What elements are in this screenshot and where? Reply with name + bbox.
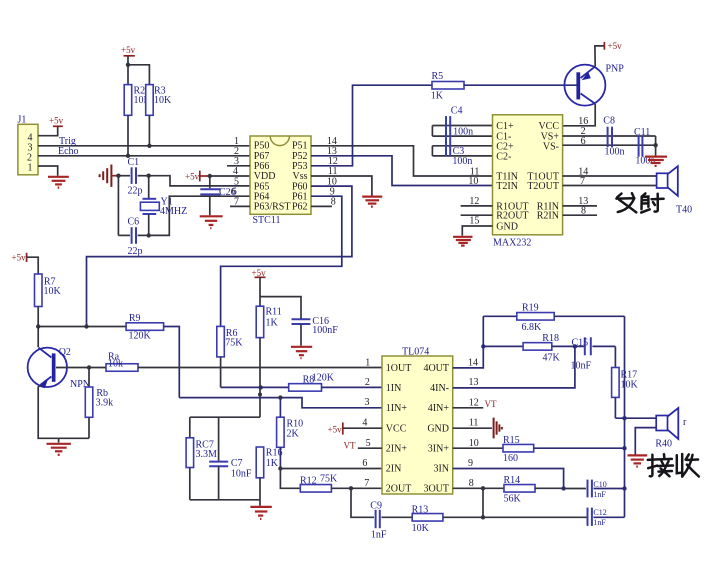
svg-text:10: 10 <box>469 438 479 449</box>
wire VS- row through C8 C11 <box>563 144 656 146</box>
svg-text:C4: C4 <box>451 106 463 117</box>
ground (C11 right) <box>645 157 667 166</box>
pin numbers TL074 left <box>362 357 370 489</box>
resistor RC7 3.3M <box>186 417 217 500</box>
wire P51 pin14 to T1IN <box>311 146 493 176</box>
capacitor C7 10nF <box>209 417 252 500</box>
wire speaker lower to ground <box>635 428 656 455</box>
svg-text:T2IN: T2IN <box>496 181 518 192</box>
svg-text:1: 1 <box>28 163 33 174</box>
svg-text:R19: R19 <box>522 303 539 314</box>
svg-text:+5v: +5v <box>252 268 267 278</box>
wire R8 row (R6 to 1IN-) <box>221 386 289 388</box>
node junction C1 left <box>116 174 120 178</box>
resistor Rb 3.9k <box>85 368 113 439</box>
svg-text:10k: 10k <box>108 359 123 370</box>
svg-text:+5v: +5v <box>49 116 64 126</box>
svg-text:5: 5 <box>366 438 371 449</box>
node C10 output junction <box>622 486 626 490</box>
wire C6 left drop <box>117 176 119 236</box>
ground (under J1) <box>48 177 69 188</box>
svg-text:3.9k: 3.9k <box>96 398 114 409</box>
resistor R9 120K <box>126 313 164 342</box>
wire R8 to TL074 1IN- <box>322 386 383 388</box>
svg-text:12: 12 <box>469 397 479 408</box>
svg-text:75K: 75K <box>225 338 243 349</box>
svg-text:75K: 75K <box>320 474 338 485</box>
svg-text:J1: J1 <box>18 115 27 126</box>
svg-text:15: 15 <box>469 215 479 226</box>
svg-text:2: 2 <box>365 377 370 388</box>
svg-text:R14: R14 <box>504 475 521 486</box>
node R3-Trig junction <box>147 144 151 148</box>
ground (under C26) <box>200 216 223 228</box>
wire P61 pin9 to R6 <box>221 196 342 326</box>
svg-text:1nF: 1nF <box>593 518 606 527</box>
svg-text:14: 14 <box>468 357 478 368</box>
power +5v (R7 top) <box>12 252 27 262</box>
ground (MAX232 GND) <box>453 237 472 246</box>
svg-text:100n: 100n <box>605 147 625 158</box>
capacitor C6 22p <box>118 217 148 258</box>
svg-text:3IN: 3IN <box>433 464 449 475</box>
wire R11 bottom long vertical <box>259 338 261 418</box>
svg-text:R16: R16 <box>266 448 283 459</box>
node 2IN row junction <box>278 466 282 470</box>
svg-text:R2OUT: R2OUT <box>496 211 528 222</box>
node R13 junction <box>481 515 485 519</box>
svg-text:+5v: +5v <box>12 252 27 262</box>
svg-text:3OUT: 3OUT <box>423 484 449 495</box>
svg-text:10K: 10K <box>412 523 430 534</box>
resistor R3 <box>146 85 172 116</box>
wire base row to TL074 1OUT <box>138 367 382 369</box>
wire VDD row <box>210 175 250 177</box>
wire R7 bottom to Q2 collector <box>37 307 39 348</box>
capacitor C16 100nF <box>292 316 339 346</box>
resistor R17 10K <box>612 346 639 418</box>
capacitor C3 100n <box>432 138 492 167</box>
wire +5v down to R11 and C16 <box>259 277 261 306</box>
wire 4IN- pin13 to C15 node <box>453 346 575 388</box>
wire R17 to speaker upper <box>615 417 656 419</box>
crystal Y1 4MHZ <box>140 176 187 236</box>
wire VS+ row through C8 <box>563 135 656 137</box>
svg-text:R40: R40 <box>655 439 672 450</box>
capacitor C26 <box>200 176 235 215</box>
svg-text:Q2: Q2 <box>59 347 71 358</box>
IC U1 STC11 microcontroller <box>250 136 311 226</box>
capacitor C1 22p <box>118 157 148 197</box>
resistor R15 160 <box>503 435 534 464</box>
svg-text:R11: R11 <box>266 307 282 318</box>
svg-text:+5v: +5v <box>608 41 623 51</box>
wire T2OUT to speaker <box>563 185 657 187</box>
wire crystal top node to P65 row <box>149 176 250 186</box>
wire 4OUT pin14 to feedback node <box>453 316 484 368</box>
resistor R5 1K <box>431 71 464 102</box>
svg-text:100n: 100n <box>453 127 473 138</box>
svg-text:9: 9 <box>468 458 473 469</box>
wire Echo row (J1 pin2 to STC11 P67) <box>38 155 250 157</box>
wire R9 right down to 1IN+ path <box>164 327 180 398</box>
svg-text:4OUT: 4OUT <box>423 363 449 374</box>
svg-text:8: 8 <box>469 478 474 489</box>
svg-text:VCC: VCC <box>538 121 559 132</box>
resistor R19 6.8K <box>483 303 624 333</box>
svg-text:R5: R5 <box>432 71 444 82</box>
svg-text:T2OUT: T2OUT <box>527 181 559 192</box>
node P60 junction <box>84 324 88 328</box>
svg-text:4IN+: 4IN+ <box>428 403 450 414</box>
svg-text:3: 3 <box>365 397 370 408</box>
wire P63/RST stub <box>230 205 250 207</box>
svg-text:4IN-: 4IN- <box>430 383 449 394</box>
svg-text:PNP: PNP <box>606 64 625 75</box>
ground (under R16) <box>250 500 271 519</box>
wire R3 bottom to Trig <box>148 115 150 146</box>
svg-text:R18: R18 <box>542 333 559 344</box>
node R11/R8 junction <box>259 385 263 389</box>
node R2-Echo junction <box>126 154 130 158</box>
svg-text:4: 4 <box>362 418 367 429</box>
svg-text:10nF: 10nF <box>571 361 592 372</box>
wire VS jog down to ground <box>655 136 657 156</box>
node R10 top junction <box>278 395 282 399</box>
svg-text:1K: 1K <box>266 318 279 329</box>
speaker T40 (transmit transducer) <box>657 166 693 215</box>
wire R9 path to 1IN+ <box>179 398 382 408</box>
svg-text:R9: R9 <box>129 313 141 324</box>
wire output long vertical <box>624 316 626 517</box>
svg-text:C2-: C2- <box>496 151 511 162</box>
svg-text:VS-: VS- <box>543 141 559 152</box>
svg-text:13: 13 <box>469 377 479 388</box>
power +5v (VDD) <box>185 171 210 182</box>
transistor Q2 NPN <box>28 347 90 390</box>
node R14/C10 junction <box>561 486 565 490</box>
svg-text:R2IN: R2IN <box>537 211 559 222</box>
node junction R2R3 +5v <box>126 63 130 67</box>
connector J1 <box>18 115 39 175</box>
svg-text:10K: 10K <box>44 286 62 297</box>
text receive label (jie shou drawn strokes) <box>648 454 699 477</box>
wire Q2 base row to Ra <box>56 367 106 369</box>
node junction C6 right / crystal bottom <box>147 233 151 237</box>
resistor R12 75K <box>300 474 338 493</box>
svg-text:C1+: C1+ <box>496 121 514 132</box>
svg-text:C12: C12 <box>593 508 606 517</box>
svg-text:R13: R13 <box>412 505 429 516</box>
wire crystal bottom node to P64 row <box>149 196 250 235</box>
speaker R40 (receive transducer) <box>655 408 687 450</box>
wire Q2 emitter to ground rail <box>38 385 89 438</box>
svg-text:MAX232: MAX232 <box>493 238 531 249</box>
svg-text:Echo: Echo <box>58 146 79 157</box>
svg-text:P62: P62 <box>292 202 308 213</box>
svg-text:C1: C1 <box>128 157 140 168</box>
power +5v (R2 R3 top) <box>121 45 136 56</box>
svg-text:C8: C8 <box>603 116 615 127</box>
wire R5 to PNP base <box>464 84 577 86</box>
svg-text:1OUT: 1OUT <box>386 363 412 374</box>
node R18 junction <box>481 344 485 348</box>
wire R2IN stub <box>563 214 597 216</box>
pin numbers STC11 right <box>327 136 338 208</box>
svg-text:STC11: STC11 <box>253 215 281 226</box>
svg-text:P63/RST: P63/RST <box>254 202 291 213</box>
wire GND pin11 <box>453 427 492 429</box>
resistor R10 2K <box>277 398 304 469</box>
svg-text:10K: 10K <box>154 95 172 106</box>
bottom rail RC7 C7 R16 <box>190 499 260 501</box>
svg-text:VT: VT <box>485 399 497 409</box>
node junction C1 right / crystal top <box>147 174 151 178</box>
wire 2IN row <box>280 468 382 470</box>
resistor R16 1K <box>256 447 282 500</box>
capacitor C11 100n <box>634 127 655 167</box>
wire Trig row (J1 pin3 to STC11 P50) <box>38 145 250 147</box>
capacitor C4 100n <box>432 106 492 138</box>
wire P52 pin13 to T2IN <box>311 156 493 186</box>
node R7/R9 junction <box>36 324 40 328</box>
resistor R8 120K <box>289 373 335 392</box>
svg-text:22p: 22p <box>128 246 143 257</box>
wire R2OUT stub <box>461 214 493 216</box>
node VT (2IN+) <box>344 441 383 451</box>
svg-text:1IN: 1IN <box>386 383 402 394</box>
resistor R6 75K <box>217 326 244 357</box>
wire R15 to output node <box>534 447 625 449</box>
wire PNP collector to VCC pin16 <box>563 104 596 126</box>
node R15 output junction <box>622 446 626 450</box>
svg-text:1K: 1K <box>431 91 444 102</box>
svg-text:120K: 120K <box>312 373 335 384</box>
svg-text:7: 7 <box>364 478 369 489</box>
svg-text:2K: 2K <box>287 429 300 440</box>
svg-text:1nF: 1nF <box>371 530 387 541</box>
svg-text:GND: GND <box>496 221 518 232</box>
wire 3OUT down to R13 row <box>482 488 484 517</box>
capacitor C15 10nF <box>571 337 616 371</box>
svg-text:4MHZ: 4MHZ <box>160 206 187 217</box>
svg-text:6.8K: 6.8K <box>522 322 543 333</box>
power +5v (PNP) <box>604 41 622 51</box>
wire node to R9 <box>38 326 126 328</box>
wire 3IN- pin9 jog to C10 <box>453 469 564 489</box>
node 3OUT junction <box>481 486 485 490</box>
wire P53 pin12 to R5 <box>311 85 432 166</box>
pin numbers MAX232 right <box>578 116 588 217</box>
capacitor C9 1nF <box>370 501 387 541</box>
resistor R7 10K <box>35 274 62 307</box>
wire R12 to 2OUT row <box>331 487 382 489</box>
wire R1OUT stub <box>461 205 493 207</box>
node VDD junction <box>208 174 212 178</box>
svg-text:C15: C15 <box>572 337 589 348</box>
transistor Q1 PNP <box>564 64 624 106</box>
ground (under Q2) <box>47 438 71 455</box>
svg-text:1K: 1K <box>266 458 279 469</box>
top rail RC7 C7 <box>190 416 260 418</box>
node C15 junction <box>573 344 577 348</box>
svg-text:+5v: +5v <box>121 45 136 55</box>
wire 3OUT pin8 to R14 <box>453 487 504 489</box>
node output/speaker junction <box>622 416 626 420</box>
pin numbers STC11 left <box>232 136 239 208</box>
svg-text:2IN: 2IN <box>386 464 402 475</box>
svg-text:VCC: VCC <box>386 423 407 434</box>
svg-text:TL074: TL074 <box>402 347 429 358</box>
wire R13 to C12 row <box>443 516 588 518</box>
wire R2 bottom to Echo <box>127 115 129 156</box>
wire GND pin15 to ground <box>462 226 492 236</box>
wire C9 to R13 <box>381 516 412 518</box>
svg-text:100nF: 100nF <box>312 325 338 336</box>
ground (chassis, TL074 GND) <box>494 418 502 439</box>
node VS- junction <box>653 143 657 147</box>
capacitor C12 1nF <box>588 508 625 527</box>
svg-text:10nF: 10nF <box>231 469 252 480</box>
wire R12 left jog <box>280 469 300 489</box>
wire +5v to R7 <box>27 257 39 274</box>
resistor R14 56K <box>504 475 536 505</box>
capacitor C8 100n <box>603 116 624 158</box>
svg-text:C11: C11 <box>634 127 650 138</box>
svg-text:120K: 120K <box>129 331 152 342</box>
svg-text:1: 1 <box>365 357 370 368</box>
wire J1 pin1 to ground <box>38 166 58 176</box>
ground (chassis, left of C1) <box>100 165 119 187</box>
wire PNP emitter to +5v <box>595 46 605 67</box>
capacitor C10 1nF <box>564 480 625 499</box>
svg-text:GND: GND <box>427 423 449 434</box>
svg-text:C7: C7 <box>231 458 243 469</box>
IC U2 MAX232 <box>493 115 563 249</box>
wire 4IN+ pin12 stub VT <box>453 399 497 409</box>
power +5v (J1) <box>49 116 64 127</box>
node Rb junction <box>87 365 91 369</box>
wire C9 drop and row <box>351 488 374 517</box>
power +5v (TL074 VCC) <box>328 422 383 434</box>
node C9 junction <box>349 486 353 490</box>
power +5v (R11 top) <box>252 268 267 278</box>
svg-text:16: 16 <box>578 116 588 127</box>
resistor R18 47K <box>483 333 584 364</box>
svg-text:2OUT: 2OUT <box>386 484 412 495</box>
svg-text:1nF: 1nF <box>593 490 606 499</box>
svg-text:3.3M: 3.3M <box>196 449 218 460</box>
svg-text:T40: T40 <box>676 205 692 216</box>
svg-text:10: 10 <box>468 176 478 187</box>
wire +5v to R2/R3 tops <box>127 56 129 85</box>
ground (receive) <box>628 455 648 466</box>
svg-text:6: 6 <box>362 458 367 469</box>
svg-text:160: 160 <box>503 453 518 464</box>
svg-text:11: 11 <box>469 418 479 429</box>
wire R14 to C10 <box>535 487 564 489</box>
ground (Vss STC11) <box>362 197 382 207</box>
svg-text:2IN+: 2IN+ <box>386 443 408 454</box>
wire Vss pin11 to ground <box>311 176 372 196</box>
svg-text:+5v: +5v <box>185 172 200 182</box>
wire P66 stub <box>227 165 250 167</box>
svg-text:10K: 10K <box>621 380 639 391</box>
wire P62 pin8 stub <box>311 205 332 207</box>
resistor Ra 10k <box>106 352 138 372</box>
svg-text:VT: VT <box>344 441 356 451</box>
resistor R2 <box>124 85 151 116</box>
node R11 line crossing <box>258 393 262 397</box>
svg-text:47K: 47K <box>543 353 561 364</box>
svg-text:C10: C10 <box>593 480 606 489</box>
svg-text:56K: 56K <box>504 494 522 505</box>
svg-text:R12: R12 <box>300 476 317 487</box>
wire T1OUT to speaker <box>563 175 657 177</box>
wire J1 pin4 to +5v <box>38 127 58 136</box>
wire R6 bottom to R8 row <box>220 357 222 388</box>
wire P60 pin10 long path to Q2 node <box>87 186 352 326</box>
resistor R11 1K <box>256 306 282 337</box>
wire 3IN+ pin10 to R15 <box>453 447 503 449</box>
svg-text:+5v: +5v <box>328 425 343 435</box>
ground (under C16) <box>291 347 312 358</box>
pin numbers MAX232 left <box>468 166 479 226</box>
svg-text:C6: C6 <box>128 217 140 228</box>
resistor R13 10K <box>412 505 443 535</box>
svg-text:22p: 22p <box>128 186 143 197</box>
pin numbers TL074 right <box>468 357 479 489</box>
wire R1IN stub <box>563 205 597 207</box>
op-amp U3 TL074 <box>382 347 453 495</box>
svg-text:C9: C9 <box>370 501 382 512</box>
svg-text:R15: R15 <box>503 435 520 446</box>
svg-text:3IN+: 3IN+ <box>428 443 450 454</box>
text transmit label (fa she drawn strokes) <box>616 193 663 212</box>
svg-text:1IN+: 1IN+ <box>386 403 408 414</box>
